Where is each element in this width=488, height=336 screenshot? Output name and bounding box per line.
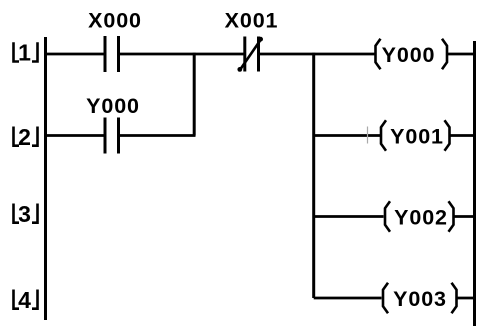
svg-text:2: 2: [18, 124, 31, 150]
left power rail: [44, 37, 47, 320]
contact Y000 (normally open): [86, 94, 140, 154]
contact X000 (normally open): [88, 9, 142, 73]
rung label [4]: [14, 287, 38, 313]
svg-text:1: 1: [18, 40, 31, 66]
right power rail: [473, 41, 476, 326]
svg-text:Y001: Y001: [390, 125, 444, 149]
svg-text:Y000: Y000: [86, 94, 140, 118]
svg-text:Y000: Y000: [382, 43, 436, 67]
coil Y000: [376, 39, 448, 69]
branch vertical from rung1 down to rung4: [312, 53, 315, 298]
cursor artifact tick: [367, 127, 369, 144]
svg-text:3: 3: [18, 201, 31, 227]
wire X000 to X001: [119, 53, 245, 56]
wire contact Y000 to connector: [119, 134, 196, 137]
wire rung2 rail to contact Y000: [47, 134, 104, 137]
svg-text:Y003: Y003: [393, 287, 447, 311]
rung label [3]: [14, 201, 38, 227]
svg-text:Y002: Y002: [394, 206, 448, 230]
wire coil Y000 to right rail: [447, 53, 474, 56]
svg-text:4: 4: [18, 287, 31, 313]
svg-text:X001: X001: [225, 9, 279, 33]
wire branch to coil Y001: [314, 134, 380, 137]
wire branch to coil Y002: [314, 215, 384, 218]
junction connector rung2 to rung1: [193, 53, 196, 136]
wire coil Y002 to right rail: [454, 215, 474, 218]
wire branch to coil Y003: [314, 297, 382, 300]
contact X001 (normally closed): [225, 9, 279, 72]
wire coil Y003 to right rail: [457, 297, 474, 300]
rung label [2]: [14, 124, 38, 150]
wire X001 to coil Y000: [259, 53, 375, 56]
rung label [1]: [14, 40, 38, 66]
coil Y002: [385, 201, 454, 231]
coil Y003: [383, 283, 457, 313]
wire rung1 rail to X000: [47, 53, 104, 56]
wire coil Y001 to right rail: [450, 134, 474, 137]
coil Y001: [381, 120, 450, 150]
svg-text:X000: X000: [88, 9, 142, 33]
